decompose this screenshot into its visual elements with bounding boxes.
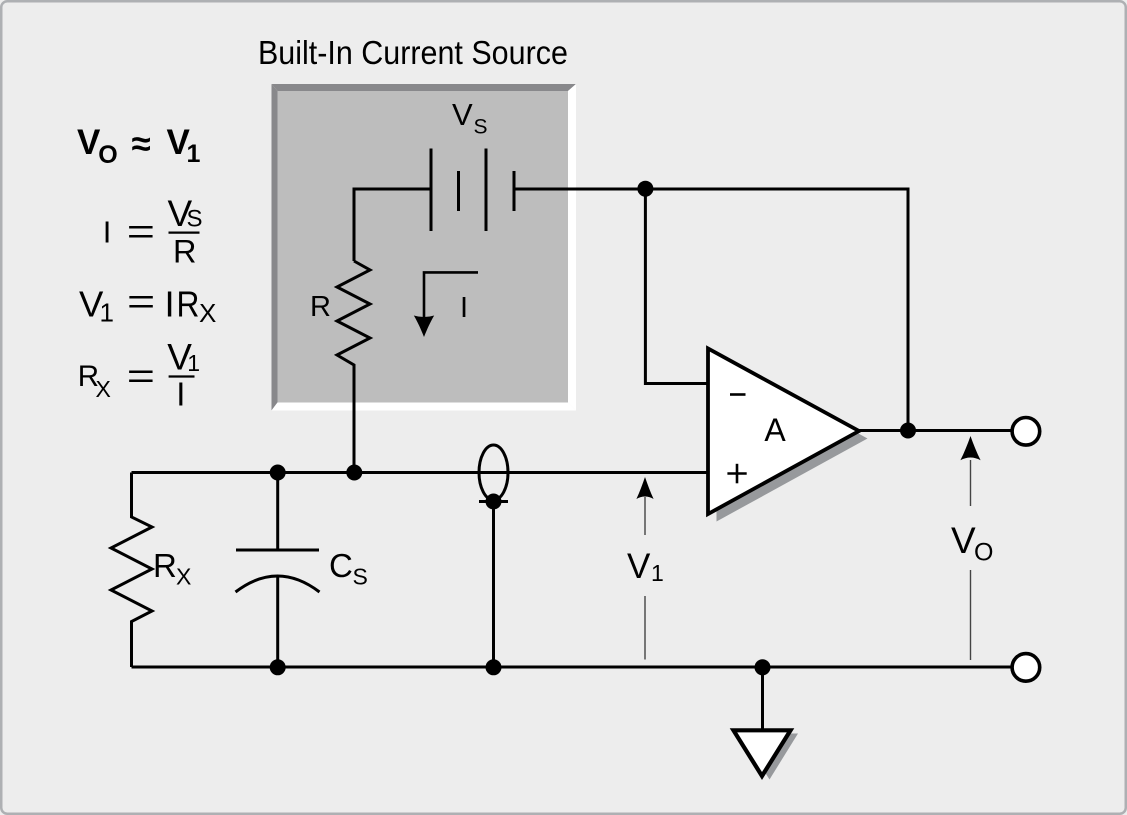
svg-text:R: R [173, 233, 196, 269]
svg-text:A: A [764, 412, 786, 448]
svg-text:=: = [127, 282, 155, 321]
svg-text:1: 1 [187, 140, 201, 168]
svg-text:≈: ≈ [132, 125, 151, 164]
svg-text:R: R [177, 284, 200, 325]
svg-text:1: 1 [187, 350, 200, 376]
svg-text:R: R [153, 547, 177, 584]
svg-text:I: I [103, 215, 112, 250]
svg-text:X: X [199, 298, 216, 328]
svg-text:S: S [474, 116, 488, 139]
svg-text:=: = [127, 212, 155, 251]
svg-text:V: V [452, 97, 473, 132]
svg-text:S: S [353, 564, 368, 590]
svg-text:1: 1 [100, 298, 114, 328]
svg-text:1: 1 [651, 560, 664, 586]
svg-text:S: S [187, 206, 203, 233]
svg-text:O: O [98, 141, 117, 169]
svg-text:V: V [951, 520, 976, 561]
svg-text:I: I [176, 375, 185, 412]
svg-text:O: O [974, 539, 993, 567]
svg-text:V: V [627, 547, 651, 586]
svg-text:Built-In Current Source: Built-In Current Source [258, 34, 568, 72]
svg-text:R: R [310, 291, 331, 323]
svg-text:=: = [127, 356, 155, 395]
svg-text:X: X [176, 564, 191, 590]
svg-text:I: I [165, 284, 175, 325]
svg-text:I: I [460, 292, 468, 324]
svg-text:C: C [329, 547, 353, 584]
svg-text:X: X [96, 376, 111, 402]
